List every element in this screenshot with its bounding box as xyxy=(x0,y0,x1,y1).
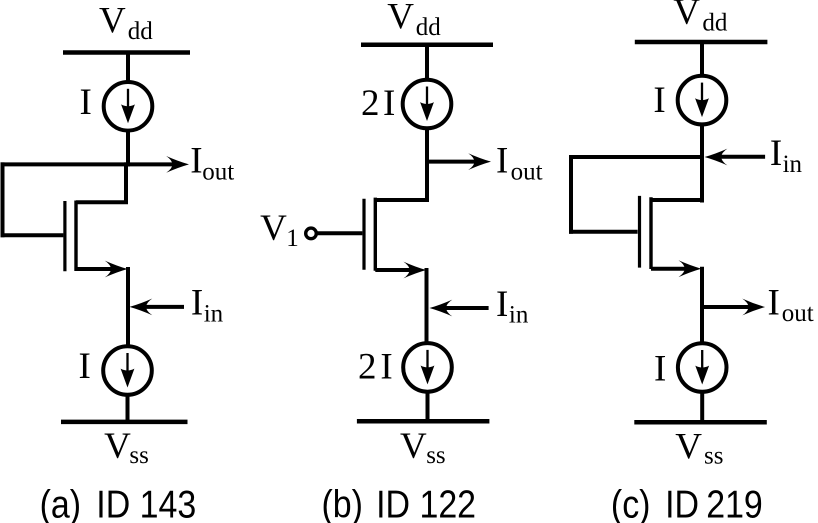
value label 2I (b bottom) xyxy=(358,346,393,387)
Vss rail (b) xyxy=(357,419,490,424)
svg-text:V: V xyxy=(675,427,702,468)
svg-text:I: I xyxy=(80,82,92,123)
svg-text:219: 219 xyxy=(706,482,763,523)
label Iout (b) xyxy=(496,140,543,185)
value label 2I (b top) xyxy=(361,83,395,124)
svg-text:dd: dd xyxy=(128,18,154,45)
label V1 (b) xyxy=(260,208,299,252)
svg-text:V: V xyxy=(400,426,427,467)
svg-text:ID 122: ID 122 xyxy=(376,482,476,523)
wire I2 to Vss rail (a) xyxy=(126,393,130,424)
wire I6 to Vss rail (c) xyxy=(700,391,704,425)
current source I5 (c top) xyxy=(678,76,727,125)
Iout arrow (a) xyxy=(128,156,189,173)
net Vss label (c) xyxy=(675,427,723,470)
svg-text:out: out xyxy=(511,159,543,186)
M3 drain lead (c) xyxy=(651,198,702,202)
M1 drain lead (a) xyxy=(76,162,126,202)
svg-text:out: out xyxy=(202,159,234,186)
svg-text:ID: ID xyxy=(665,482,699,523)
svg-text:I: I xyxy=(653,80,665,121)
current source I2 (a bottom) xyxy=(103,346,152,395)
Vss rail (a) xyxy=(61,420,188,425)
svg-text:(b): (b) xyxy=(322,482,363,523)
Iin arrow (c) xyxy=(705,149,766,166)
svg-text:in: in xyxy=(204,300,224,327)
net Vdd label (c) xyxy=(673,0,728,36)
Vdd rail (a) xyxy=(63,50,190,55)
caption (b) ID 122 xyxy=(322,482,477,523)
transistor M1 gate bar (a) xyxy=(63,201,66,271)
svg-text:V: V xyxy=(673,0,700,33)
svg-text:I: I xyxy=(79,346,91,387)
label Iin (c) xyxy=(770,133,803,178)
Vdd rail (b) xyxy=(361,42,493,47)
M1 source lead with NMOS arrow (a) xyxy=(76,261,128,278)
Iin arrow (a) xyxy=(130,299,185,316)
wire I1 to drain node (a) xyxy=(126,130,130,167)
Iout arrow (b) xyxy=(427,153,491,170)
svg-text:dd: dd xyxy=(416,14,442,41)
svg-text:I: I xyxy=(768,282,780,323)
svg-text:I: I xyxy=(496,284,508,325)
wire Vdd to current source I1 (a) xyxy=(126,51,130,84)
transistor M2 gate bar (b) xyxy=(362,199,365,270)
svg-text:V: V xyxy=(99,1,126,42)
wire Vdd to current source I5 (c) xyxy=(700,40,704,77)
svg-text:in: in xyxy=(783,151,803,178)
feedback wire left vertical (a) xyxy=(1,162,5,237)
wire I5 to drain node (c) xyxy=(700,123,704,203)
wire source to Iout node (c) xyxy=(700,267,704,344)
caption (c) ID 219 xyxy=(611,482,763,523)
label Iin (a) xyxy=(191,283,224,328)
svg-text:ss: ss xyxy=(704,443,723,470)
current source I1 (a) xyxy=(104,82,153,131)
transistor M1 channel bar (a) xyxy=(74,201,77,272)
caption (a) ID 143 xyxy=(40,482,197,523)
svg-text:V: V xyxy=(387,0,414,38)
transistor M2 channel bar (b) xyxy=(374,198,377,271)
node drain/Iin (c): feedback top wire xyxy=(569,155,704,159)
wire drain node to M2 drain (b) xyxy=(375,160,427,200)
svg-text:2: 2 xyxy=(361,83,380,124)
gate lead wire from V1 (b) xyxy=(316,231,362,235)
net Vdd label (b) xyxy=(387,0,441,41)
svg-text:I: I xyxy=(190,141,202,182)
label Iout (c) xyxy=(768,282,814,326)
svg-text:I: I xyxy=(380,346,392,387)
svg-text:V: V xyxy=(104,426,131,467)
svg-text:dd: dd xyxy=(702,9,728,36)
svg-text:(a): (a) xyxy=(40,482,81,523)
net Vss label (a) xyxy=(104,426,149,469)
Iout arrow (c) xyxy=(702,299,765,316)
svg-text:I: I xyxy=(770,133,782,174)
svg-text:V: V xyxy=(260,208,287,249)
svg-text:I: I xyxy=(383,83,395,124)
net Vdd label (a) xyxy=(99,1,153,45)
Vss rail (c) xyxy=(634,420,767,425)
transistor M3 gate bar (c) xyxy=(638,196,641,268)
current source I3 2I (b top) xyxy=(403,80,452,129)
svg-text:ss: ss xyxy=(426,442,445,469)
gate lead wire (a) xyxy=(1,233,64,237)
wire source to Iin node (b) xyxy=(425,268,429,345)
svg-text:(c): (c) xyxy=(611,482,651,523)
svg-text:in: in xyxy=(509,302,529,329)
label Iout (a) xyxy=(190,141,234,186)
svg-text:I: I xyxy=(654,349,666,390)
Vdd rail (c) xyxy=(635,40,768,45)
M2 source lead with NMOS arrow (b) xyxy=(375,262,426,279)
terminal V1 (open circle) (b) xyxy=(306,228,317,239)
label Iin (b) xyxy=(496,284,529,329)
wire source to Iin node (a) xyxy=(126,267,130,347)
current source I6 (c bottom) xyxy=(678,343,727,392)
feedback wire left vertical (c) xyxy=(569,155,573,234)
svg-text:1: 1 xyxy=(286,225,299,252)
wire Vdd to current source I3 (b) xyxy=(425,43,429,81)
svg-text:I: I xyxy=(191,283,203,324)
svg-text:out: out xyxy=(782,300,814,327)
net Vss label (b) xyxy=(400,426,446,469)
current source I4 2I (b bottom) xyxy=(403,343,452,392)
transistor M3 channel bar (c) xyxy=(649,197,652,269)
svg-text:ID 143: ID 143 xyxy=(96,482,196,523)
wire I3 to drain node (b) xyxy=(425,127,429,164)
svg-text:ss: ss xyxy=(129,442,148,469)
wire I4 to Vss rail (b) xyxy=(426,390,430,423)
gate lead wire (c) xyxy=(569,230,638,234)
svg-text:2: 2 xyxy=(358,346,377,387)
M3 source lead with NMOS arrow (c) xyxy=(651,260,701,277)
node drain/Iout (a): feedback top wire xyxy=(1,162,131,166)
Iin arrow (b) xyxy=(430,300,489,317)
svg-text:I: I xyxy=(496,140,508,181)
